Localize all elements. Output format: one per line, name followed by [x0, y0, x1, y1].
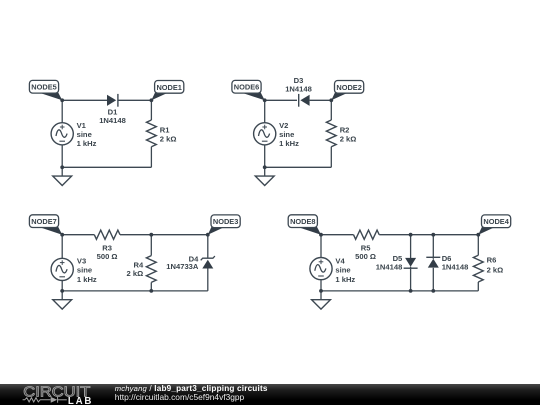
svg-text:R6: R6 — [487, 256, 497, 265]
svg-text:D5: D5 — [393, 254, 403, 263]
svg-text:R2: R2 — [340, 125, 350, 134]
svg-text:500 Ω: 500 Ω — [97, 252, 118, 261]
svg-text:1 kHz: 1 kHz — [279, 139, 299, 148]
svg-text:sine: sine — [279, 130, 294, 139]
svg-text:D6: D6 — [442, 254, 452, 263]
svg-text:1N4148: 1N4148 — [442, 263, 469, 272]
svg-text:NODE8: NODE8 — [290, 217, 315, 226]
svg-text:NODE4: NODE4 — [483, 217, 509, 226]
svg-text:1 kHz: 1 kHz — [77, 275, 97, 284]
svg-text:1N4148: 1N4148 — [99, 116, 126, 125]
svg-text:NODE5: NODE5 — [31, 83, 56, 92]
svg-text:NODE2: NODE2 — [336, 83, 361, 92]
svg-text:NODE1: NODE1 — [156, 83, 181, 92]
svg-text:V4: V4 — [335, 257, 345, 266]
svg-text:sine: sine — [77, 266, 92, 275]
svg-text:R1: R1 — [160, 125, 170, 134]
svg-text:NODE7: NODE7 — [31, 217, 56, 226]
svg-text:2 kΩ: 2 kΩ — [340, 135, 357, 144]
svg-text:1N4733A: 1N4733A — [166, 262, 199, 271]
svg-text:NODE6: NODE6 — [234, 83, 259, 92]
svg-text:2 kΩ: 2 kΩ — [487, 265, 504, 274]
svg-text:500 Ω: 500 Ω — [355, 252, 376, 261]
svg-text:V1: V1 — [77, 121, 87, 130]
svg-text:D1: D1 — [108, 107, 118, 116]
svg-text:1 kHz: 1 kHz — [77, 139, 97, 148]
svg-text:1N4148: 1N4148 — [285, 85, 312, 94]
svg-text:V3: V3 — [77, 257, 86, 266]
svg-text:1 kHz: 1 kHz — [335, 275, 355, 284]
svg-text:sine: sine — [77, 130, 92, 139]
svg-text:V2: V2 — [279, 121, 288, 130]
svg-text:sine: sine — [335, 266, 350, 275]
svg-text:2 kΩ: 2 kΩ — [160, 135, 177, 144]
svg-text:LAB: LAB — [68, 396, 93, 405]
svg-text:NODE3: NODE3 — [213, 217, 238, 226]
svg-text:1N4148: 1N4148 — [376, 263, 403, 272]
svg-text:2 kΩ: 2 kΩ — [127, 269, 144, 278]
